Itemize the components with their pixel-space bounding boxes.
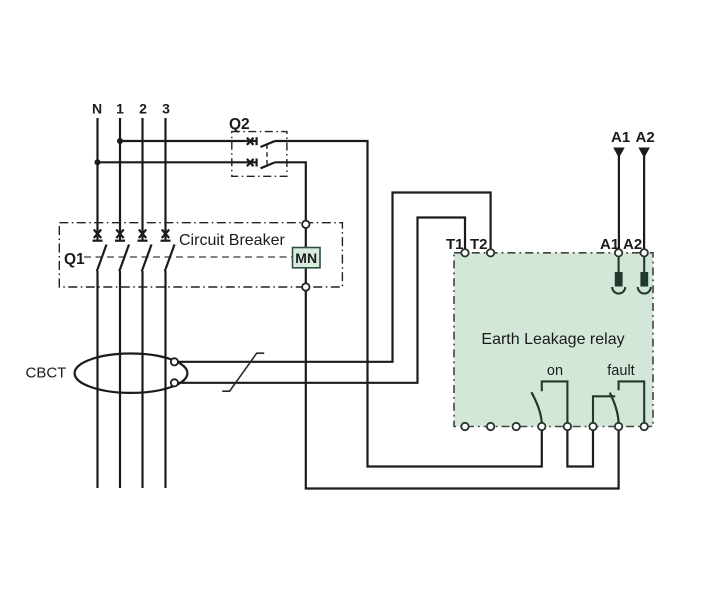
relay coil A2 body: [640, 272, 648, 287]
CBCT secondary terminal lower: [171, 379, 178, 386]
wire Q2 upper to relay on-contact (phase path): [275, 141, 542, 467]
MN undervoltage release box: [293, 248, 321, 268]
svg-text:MN: MN: [295, 250, 317, 266]
svg-text:T2: T2: [470, 236, 488, 253]
relay fault-contact left bracket: [593, 396, 615, 426]
relay bottom terminal 4 (on blade): [538, 423, 545, 430]
relay fault-contact blade: [610, 393, 619, 427]
relay coil A2 cup: [638, 287, 651, 294]
contactor Q2 lower contact: [246, 159, 275, 169]
CBCT secondary terminal upper: [171, 358, 178, 365]
relay fault-contact right bracket: [619, 381, 645, 426]
relay bottom terminal 8 (fault right): [641, 423, 648, 430]
svg-text:1: 1: [116, 101, 124, 117]
arrow A2 supply: [638, 148, 650, 159]
wire from line 1 to Q2 upper contact: [120, 140, 246, 142]
svg-text:Q1: Q1: [64, 251, 85, 268]
node junction on line N: [95, 159, 101, 165]
breaker Q1 pole N contact: [93, 230, 107, 272]
svg-text:A2: A2: [636, 129, 655, 146]
breaker Q1 pole 2 contact: [138, 230, 152, 272]
svg-text:A1: A1: [611, 129, 630, 146]
supply line 2: [141, 118, 143, 488]
cable slash symbol on secondary pair: [222, 353, 264, 391]
svg-text:N: N: [92, 101, 102, 117]
supply line 1: [119, 118, 121, 488]
svg-text:Q2: Q2: [229, 116, 250, 133]
svg-text:Circuit Breaker: Circuit Breaker: [179, 232, 285, 249]
svg-text:A2: A2: [623, 236, 642, 253]
node terminal at breaker box top on MN line: [302, 221, 309, 228]
relay bottom terminal 3: [513, 423, 520, 430]
wire from line N to Q2 lower contact: [98, 161, 246, 163]
relay on-contact fixed bracket: [542, 381, 568, 426]
arrow A1 supply: [613, 148, 625, 159]
Earth Leakage relay body (green box): [454, 253, 653, 427]
wire Q2 lower to MN and relay fault-contact (neutral path): [275, 162, 619, 488]
relay bottom terminal 1: [461, 423, 468, 430]
relay bottom terminal 6 (fault left): [589, 423, 596, 430]
svg-text:CBCT: CBCT: [26, 365, 67, 382]
relay coil A1 lead: [618, 256, 620, 272]
relay terminal T1: [461, 249, 468, 256]
svg-text:fault: fault: [607, 363, 634, 379]
wire A1 supply to relay: [618, 155, 620, 252]
wire CBCT upper secondary to relay T2: [178, 193, 491, 362]
svg-text:2: 2: [139, 101, 147, 117]
relay bottom terminal 5 (on bracket): [564, 423, 571, 430]
svg-text:3: 3: [162, 101, 170, 117]
node junction on line 1: [117, 138, 123, 144]
relay bottom terminal 7 (fault blade): [615, 423, 622, 430]
relay coil A1 cup: [612, 287, 625, 294]
svg-text:Earth Leakage relay: Earth Leakage relay: [481, 331, 624, 348]
wire jumper between relay bottom terminals 3 and 4: [567, 427, 593, 467]
relay on-contact blade: [531, 392, 541, 426]
relay terminal A1: [615, 249, 622, 256]
node terminal at breaker box bottom on MN line: [302, 283, 309, 290]
breaker Q1 pole 3 contact: [161, 230, 175, 272]
relay terminal T2: [487, 249, 494, 256]
relay coil A1 body: [615, 272, 623, 287]
wire CBCT lower secondary to relay T1: [178, 218, 465, 383]
contactor Q2 mechanical link (dashed): [266, 145, 268, 167]
svg-text:T1: T1: [446, 236, 464, 253]
breaker Q1 pole 1 contact: [115, 230, 129, 272]
svg-text:on: on: [547, 363, 563, 379]
contactor Q2 enclosure (dash-dot box): [232, 132, 287, 177]
CBCT core balance current transformer (ellipse): [75, 354, 188, 393]
circuit breaker Q1 enclosure (dash-dot box): [59, 223, 342, 287]
supply line 3: [164, 118, 166, 488]
wire A2 supply to relay: [643, 155, 645, 252]
supply line N: [96, 118, 98, 488]
breaker Q1 mechanical linkage (dashed): [84, 256, 293, 258]
relay terminal A2: [641, 249, 648, 256]
relay coil A2 lead: [643, 256, 645, 272]
relay bottom terminal 2: [487, 423, 494, 430]
contactor Q2 upper contact: [246, 137, 275, 147]
